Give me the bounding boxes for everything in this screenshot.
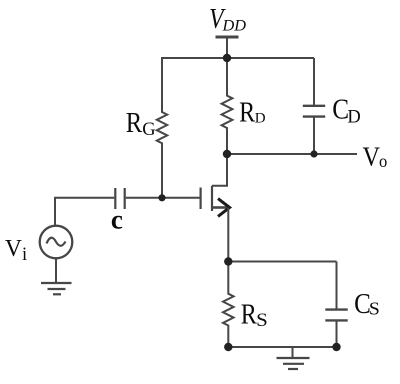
svg-text:D: D: [347, 108, 360, 128]
svg-text:D: D: [255, 110, 266, 126]
svg-text:G: G: [142, 120, 155, 140]
svg-text:S: S: [256, 310, 268, 331]
svg-text:R: R: [241, 299, 258, 330]
svg-text:DD: DD: [222, 16, 247, 35]
svg-text:S: S: [369, 299, 380, 319]
svg-text:R: R: [126, 108, 143, 139]
svg-text:i: i: [22, 245, 27, 265]
svg-text:V: V: [5, 235, 23, 262]
svg-text:o: o: [379, 151, 387, 171]
svg-text:V: V: [363, 141, 381, 172]
svg-text:R: R: [239, 97, 256, 128]
svg-text:c: c: [111, 205, 123, 235]
